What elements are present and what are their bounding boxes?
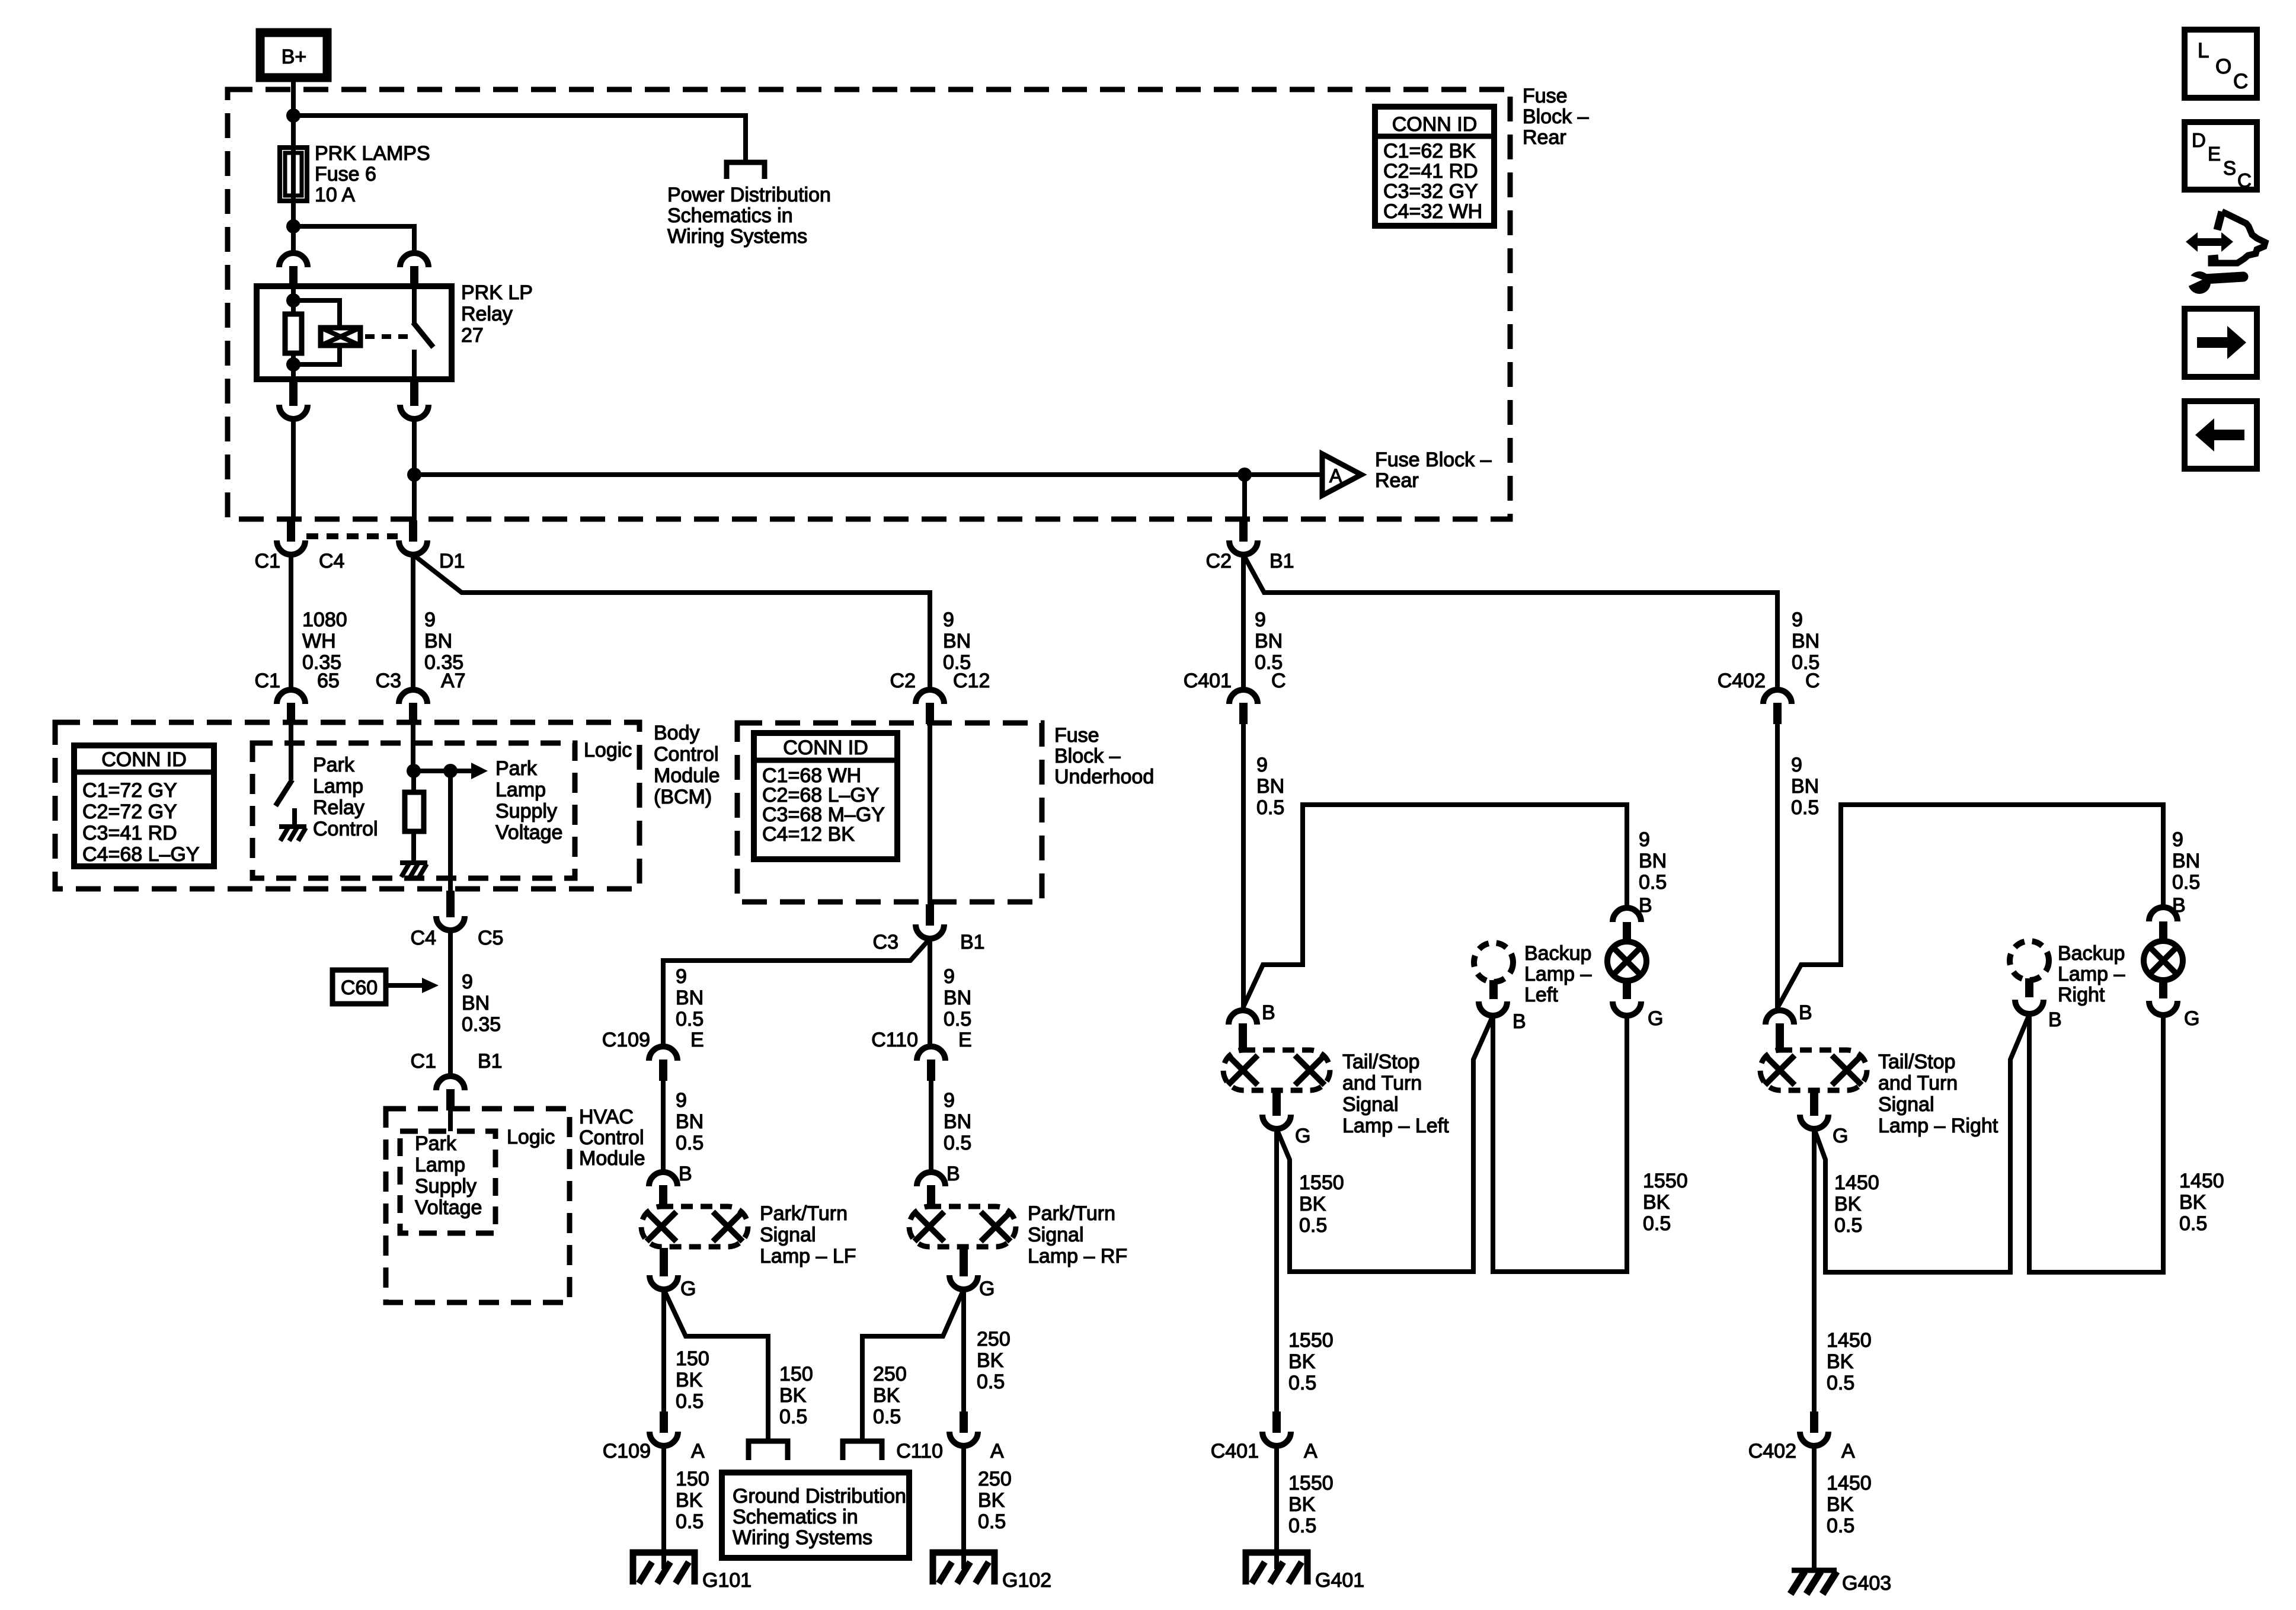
wire C4 to C1 HVAC <box>448 930 453 1076</box>
svg-text:Relay: Relay <box>461 303 513 325</box>
svg-text:Park/Turn: Park/Turn <box>1028 1202 1115 1225</box>
wire C2-B1 down to C401 <box>1241 555 1246 690</box>
label C401 C <box>1184 670 1286 692</box>
connector B park turn LF <box>649 1172 677 1208</box>
svg-text:0.5: 0.5 <box>779 1406 807 1428</box>
label park turn signal lamp LF <box>760 1202 856 1267</box>
label G tail stop left <box>1295 1125 1310 1147</box>
label wire 150 BK 0.5 branch <box>779 1363 813 1428</box>
svg-text:9: 9 <box>1255 609 1266 631</box>
wire loop to tail lamp left B <box>1243 805 1627 1008</box>
relay pin connector bottom-left <box>279 380 308 419</box>
label C109 A <box>603 1440 705 1462</box>
svg-text:0.5: 0.5 <box>1288 1372 1316 1394</box>
svg-text:9: 9 <box>1639 828 1650 851</box>
svg-text:Schematics in: Schematics in <box>733 1506 858 1528</box>
svg-text:CONN ID: CONN ID <box>101 748 187 771</box>
ground G401 <box>1246 1553 1364 1592</box>
switch park lamp relay control <box>276 724 295 825</box>
svg-text:A: A <box>1841 1440 1855 1462</box>
triangle A fuse block rear <box>1322 454 1361 495</box>
svg-text:Tail/Stop: Tail/Stop <box>1878 1051 1955 1073</box>
icon vehicle wrench <box>2186 212 2265 294</box>
label B tail stop right <box>1799 1001 1812 1024</box>
svg-text:250: 250 <box>873 1363 907 1385</box>
svg-text:A: A <box>1304 1440 1318 1462</box>
svg-text:Relay: Relay <box>313 796 364 819</box>
svg-text:BN: BN <box>676 1110 703 1133</box>
svg-text:BN: BN <box>462 992 490 1014</box>
svg-text:Lamp –: Lamp – <box>1524 963 1591 985</box>
connector C401 pin A <box>1262 1411 1291 1446</box>
label relay PRK LP 27 <box>461 281 533 347</box>
connector G park turn LF <box>650 1248 678 1289</box>
label backup lamp right <box>2058 942 2125 1006</box>
svg-text:Lamp: Lamp <box>415 1154 465 1176</box>
wire C110 A to G102 <box>961 1446 966 1569</box>
C60 connector box <box>332 970 386 1004</box>
label G tail left <box>1648 1007 1663 1030</box>
label B tail left <box>1639 894 1652 917</box>
label wire 9 BN 0.5 lamp RF <box>944 1089 971 1154</box>
svg-text:0.5: 0.5 <box>1827 1372 1854 1394</box>
svg-text:0.5: 0.5 <box>676 1390 703 1413</box>
connector G park turn RF <box>949 1248 978 1289</box>
arrow park lamp supply voltage <box>450 763 488 779</box>
connector B tail lamp left <box>1613 908 1641 922</box>
svg-text:C5: C5 <box>478 927 503 949</box>
connector C402 pin C right <box>1763 690 1792 724</box>
svg-text:Logic: Logic <box>507 1126 555 1148</box>
relay K27 box <box>257 286 452 379</box>
ground distribution box <box>722 1473 909 1558</box>
svg-text:BN: BN <box>676 987 703 1009</box>
label wire 9 BN 0.35 <box>424 609 463 674</box>
svg-text:C2: C2 <box>890 670 916 692</box>
connector C109 pin E <box>649 1046 677 1081</box>
svg-text:Lamp: Lamp <box>313 775 363 798</box>
label backup lamp left <box>1524 942 1591 1006</box>
svg-text:0.5: 0.5 <box>1299 1214 1327 1237</box>
svg-text:BK: BK <box>978 1489 1005 1512</box>
wire C109 A to G101 <box>661 1446 666 1569</box>
svg-text:C3=41 RD: C3=41 RD <box>82 822 177 844</box>
svg-text:C3=32 GY: C3=32 GY <box>1383 180 1478 203</box>
svg-text:9: 9 <box>944 1089 955 1112</box>
node junction at resistor <box>407 764 421 778</box>
wire loop to tail lamp right B <box>1777 805 2163 1008</box>
label wire 9 BN 0.5 tail right <box>2172 828 2200 894</box>
svg-text:Right: Right <box>2058 984 2105 1006</box>
svg-text:B: B <box>1512 1010 1526 1033</box>
label C1 C4 <box>255 550 345 572</box>
label C110 E <box>871 1029 971 1051</box>
svg-text:250: 250 <box>978 1468 1012 1490</box>
svg-text:(BCM): (BCM) <box>654 786 712 808</box>
connector D1 at fuse block <box>399 520 427 555</box>
wire B1 branch to C109 <box>663 939 930 1046</box>
label B RF <box>946 1163 960 1185</box>
svg-text:Fuse: Fuse <box>1054 724 1099 747</box>
relay switch <box>413 286 433 379</box>
fork connector to ground distribution left <box>749 1441 788 1460</box>
dashed bridge C4-D1 <box>306 533 398 539</box>
label wire 1450 BK 0.5 bottom right <box>1827 1472 1872 1537</box>
svg-text:9: 9 <box>424 609 436 631</box>
svg-text:Schematics in: Schematics in <box>667 204 793 227</box>
wire backup left to tail lamp G <box>1493 1016 1627 1272</box>
svg-text:B: B <box>2048 1009 2062 1031</box>
svg-text:0.5: 0.5 <box>977 1371 1005 1393</box>
wire G right to C402 A <box>1812 1129 1817 1411</box>
wire G right loop to backup lamp <box>1814 1014 2029 1272</box>
svg-text:C4: C4 <box>319 550 344 572</box>
svg-text:C: C <box>1805 670 1820 692</box>
svg-text:Lamp – Left: Lamp – Left <box>1342 1115 1449 1137</box>
svg-text:0.5: 0.5 <box>1834 1214 1862 1237</box>
wire branch to relay switch pin <box>293 226 414 253</box>
svg-text:1550: 1550 <box>1288 1472 1334 1494</box>
label C109 E <box>602 1029 704 1051</box>
svg-text:9: 9 <box>2172 828 2183 851</box>
fork connector to ground distribution right <box>843 1441 882 1460</box>
svg-text:BK: BK <box>873 1384 900 1407</box>
svg-text:0.5: 0.5 <box>2179 1212 2207 1235</box>
svg-text:150: 150 <box>676 1347 709 1370</box>
fuse block underhood dashed box <box>737 723 1042 902</box>
label park lamp supply voltage BCM <box>495 757 562 844</box>
svg-text:BN: BN <box>944 987 971 1009</box>
svg-text:9: 9 <box>944 965 955 988</box>
label C1 65 <box>255 670 340 692</box>
svg-text:0.5: 0.5 <box>978 1510 1006 1533</box>
conn id table underhood <box>754 733 897 859</box>
wire D1 down 9 BN <box>411 555 415 690</box>
svg-text:1080: 1080 <box>302 609 347 631</box>
svg-text:C4=12 BK: C4=12 BK <box>762 823 855 846</box>
park lamp relay control dashed box <box>252 743 575 878</box>
ground in park lamp relay control <box>279 827 306 841</box>
svg-text:D1: D1 <box>439 550 465 572</box>
relay mechanical link dashed <box>365 334 408 339</box>
icon button back arrow <box>2185 401 2257 469</box>
svg-text:0.5: 0.5 <box>1288 1515 1316 1537</box>
label C3 B1 underhood <box>873 931 985 953</box>
svg-text:Logic: Logic <box>584 739 632 761</box>
label park lamp supply voltage HVAC <box>415 1132 482 1219</box>
icon button LOC <box>2185 30 2257 98</box>
label wire 1550 BK 0.5 left <box>1299 1172 1344 1237</box>
svg-text:Power Distribution: Power Distribution <box>667 184 831 206</box>
svg-text:9: 9 <box>1256 754 1268 776</box>
svg-text:G: G <box>2184 1007 2199 1030</box>
svg-text:C1=62 BK: C1=62 BK <box>1383 140 1476 162</box>
connector G tail lamp left <box>1613 1001 1641 1016</box>
svg-text:C2: C2 <box>1206 550 1232 572</box>
label G tail stop right <box>1833 1125 1848 1147</box>
tail stop turn signal lamp left <box>1223 1050 1330 1090</box>
svg-text:BN: BN <box>943 630 971 652</box>
wire C12 through underhood <box>928 724 932 904</box>
connector B tail stop left <box>1229 1010 1257 1051</box>
conn id table fuse block rear <box>1375 107 1494 226</box>
BCM dashed box <box>55 722 639 889</box>
backup lamp left <box>1474 943 1513 999</box>
connector G tail stop left <box>1262 1092 1291 1129</box>
svg-text:0.5: 0.5 <box>676 1510 703 1533</box>
svg-text:BK: BK <box>1827 1350 1854 1373</box>
label C110 A <box>896 1440 1004 1462</box>
connector B backup left <box>1479 1001 1507 1016</box>
connector C1-C4 at fuse block <box>277 520 305 555</box>
svg-text:PRK LP: PRK LP <box>461 281 533 304</box>
connector C3 pin A7 BCM <box>399 690 427 724</box>
label fuse block rear top <box>1523 85 1589 149</box>
svg-text:BN: BN <box>1791 775 1819 798</box>
tail stop turn signal lamp right <box>1760 1050 1867 1090</box>
connector C3-B1 underhood <box>916 904 944 939</box>
svg-text:CONN ID: CONN ID <box>783 737 868 759</box>
svg-text:G: G <box>1295 1125 1310 1147</box>
svg-text:1550: 1550 <box>1288 1329 1334 1352</box>
wire to power distribution <box>293 116 746 161</box>
svg-text:G101: G101 <box>702 1569 752 1592</box>
connector B backup right <box>2015 1000 2044 1014</box>
svg-text:Signal: Signal <box>1028 1224 1084 1246</box>
svg-text:BK: BK <box>1834 1193 1862 1215</box>
connector C4-C5 <box>436 891 465 930</box>
park turn signal lamp RF <box>909 1206 1016 1247</box>
connector C110 pin E <box>917 1046 945 1081</box>
wire G RF branch to ground distribution <box>862 1289 964 1439</box>
svg-text:1450: 1450 <box>1834 1172 1879 1194</box>
svg-text:Lamp – Right: Lamp – Right <box>1878 1115 1998 1137</box>
svg-text:G: G <box>680 1278 696 1300</box>
svg-text:BN: BN <box>1255 630 1283 652</box>
relay coil <box>293 300 360 364</box>
svg-text:BN: BN <box>2172 850 2200 872</box>
svg-text:0.5: 0.5 <box>1643 1212 1671 1235</box>
label wire 1550 BK 0.5 tail left <box>1643 1170 1688 1235</box>
backup lamp right <box>2010 941 2049 997</box>
wire relay to connector C1 <box>291 419 296 520</box>
svg-text:Control: Control <box>579 1126 644 1149</box>
HVAC control module dashed box <box>386 1109 570 1302</box>
svg-text:B1: B1 <box>1269 550 1294 572</box>
svg-text:E: E <box>2208 143 2221 165</box>
svg-text:150: 150 <box>779 1363 813 1385</box>
svg-text:D: D <box>2192 129 2206 151</box>
wire B1 branch to C402 <box>1243 555 1777 690</box>
svg-text:Block –: Block – <box>1054 745 1121 767</box>
svg-text:B1: B1 <box>960 931 985 953</box>
ground G403 <box>1790 1570 1891 1595</box>
svg-text:Backup: Backup <box>1524 942 1591 965</box>
svg-text:C: C <box>2237 169 2252 191</box>
svg-text:BN: BN <box>1792 630 1819 652</box>
svg-text:A: A <box>691 1440 705 1462</box>
wire C401 to tail stop B <box>1241 724 1246 1008</box>
svg-text:C1: C1 <box>255 670 280 692</box>
wire G LF branch to ground distribution <box>664 1289 768 1439</box>
wire to fuse block rear output A <box>414 472 1322 477</box>
ground under resistor <box>400 863 427 877</box>
label wire 250 BK 0.5 upper <box>977 1328 1011 1393</box>
svg-text:BK: BK <box>1643 1191 1670 1214</box>
tail lamp right <box>2144 921 2183 998</box>
wire C3 into BCM <box>411 724 415 771</box>
svg-text:C2=72 GY: C2=72 GY <box>82 801 177 823</box>
connector C109 pin A <box>650 1411 678 1446</box>
icon button DESC <box>2185 122 2257 191</box>
svg-text:BN: BN <box>424 630 452 652</box>
label wire 1450 BK 0.5 tail right <box>2179 1170 2224 1235</box>
park lamp supply voltage dashed box HVAC <box>400 1131 495 1233</box>
svg-text:Lamp –: Lamp – <box>2058 963 2125 985</box>
label B tail stop left <box>1262 1001 1275 1024</box>
label B LF <box>679 1163 692 1185</box>
connector C1 pin 65 BCM <box>277 690 305 724</box>
svg-text:Wiring Systems: Wiring Systems <box>733 1526 872 1549</box>
wire C1 to BCM 1080 WH <box>289 555 293 690</box>
label C1 B1 HVAC <box>411 1050 503 1073</box>
svg-text:BK: BK <box>676 1369 703 1391</box>
connector G tail lamp right <box>2149 1001 2177 1015</box>
svg-text:Block –: Block – <box>1523 105 1589 128</box>
label C2 B1 <box>1206 550 1294 572</box>
svg-text:G: G <box>1648 1007 1663 1030</box>
relay pin connector top-right <box>400 253 428 287</box>
svg-text:C402: C402 <box>1748 1440 1796 1462</box>
svg-text:WH: WH <box>302 630 336 652</box>
svg-text:Fuse: Fuse <box>1523 85 1568 107</box>
wire C109 to lamp LF <box>661 1081 666 1172</box>
svg-text:C110: C110 <box>871 1029 918 1051</box>
icon button forward arrow <box>2185 309 2257 377</box>
svg-text:BK: BK <box>977 1349 1004 1372</box>
svg-text:C401: C401 <box>1211 1440 1259 1462</box>
ground G101 <box>633 1553 752 1592</box>
svg-text:9: 9 <box>676 1089 687 1112</box>
svg-text:Park: Park <box>313 754 355 776</box>
label body control module <box>654 722 720 808</box>
label C402 C <box>1718 670 1820 692</box>
svg-text:Control: Control <box>654 743 719 766</box>
svg-text:BK: BK <box>779 1384 807 1407</box>
svg-text:A: A <box>1329 465 1342 486</box>
connector B tail lamp right <box>2149 907 2177 921</box>
svg-text:0.5: 0.5 <box>1827 1515 1854 1537</box>
label fuse block rear at A <box>1375 449 1492 492</box>
label wire 9 BN 0.5 at C402 <box>1792 609 1819 674</box>
wire G left loop to backup lamp <box>1277 1016 1493 1272</box>
svg-text:1450: 1450 <box>1827 1329 1872 1352</box>
svg-text:Lamp: Lamp <box>495 779 546 801</box>
svg-text:0.5: 0.5 <box>944 1132 971 1154</box>
svg-text:Lamp – LF: Lamp – LF <box>760 1245 856 1267</box>
label wire 1550 BK 0.5 mid left <box>1288 1329 1334 1394</box>
label wire 150 BK 0.5 upper <box>676 1347 709 1413</box>
wire G left to C401 A <box>1274 1129 1279 1411</box>
svg-text:BN: BN <box>1256 775 1284 798</box>
tail lamp left <box>1607 922 1646 999</box>
svg-text:C402: C402 <box>1718 670 1766 692</box>
svg-text:Signal: Signal <box>1342 1093 1399 1116</box>
svg-text:G: G <box>979 1278 994 1300</box>
svg-text:C109: C109 <box>602 1029 650 1051</box>
label wire 9 BN 0.5 lamp LF <box>676 1089 703 1154</box>
label fuse block underhood <box>1054 724 1154 788</box>
wire C401 A to G401 <box>1274 1446 1279 1569</box>
svg-text:Signal: Signal <box>1878 1093 1934 1116</box>
svg-text:Signal: Signal <box>760 1224 816 1246</box>
wire C402 to tail stop B <box>1775 724 1780 1008</box>
label wire 9 BN 0.5 below C402 <box>1791 754 1819 819</box>
svg-text:B: B <box>1262 1001 1275 1024</box>
svg-text:0.5: 0.5 <box>1639 871 1667 894</box>
relay coil resistor branch <box>285 286 302 379</box>
svg-text:L: L <box>2198 39 2209 62</box>
svg-text:C3: C3 <box>873 931 898 953</box>
svg-text:Supply: Supply <box>495 800 557 822</box>
label B backup left <box>1512 1010 1526 1033</box>
label tail stop lamp left <box>1342 1051 1449 1137</box>
svg-text:B1: B1 <box>478 1050 503 1073</box>
svg-text:CONN ID: CONN ID <box>1392 113 1478 136</box>
svg-text:BK: BK <box>1288 1350 1316 1373</box>
svg-text:O: O <box>2215 55 2231 78</box>
svg-text:S: S <box>2223 157 2236 179</box>
svg-text:BK: BK <box>1299 1193 1326 1215</box>
svg-text:C3: C3 <box>376 670 401 692</box>
wire D1 branch to C12 <box>413 555 930 690</box>
label wire 1450 BK 0.5 mid right <box>1827 1329 1872 1394</box>
svg-text:1450: 1450 <box>1827 1472 1872 1494</box>
relay pin connector top-left <box>279 253 308 287</box>
svg-text:B: B <box>1799 1001 1812 1024</box>
label logic BCM <box>584 739 632 761</box>
ground G102 <box>933 1553 1051 1592</box>
svg-text:1450: 1450 <box>2179 1170 2224 1192</box>
label G RF <box>979 1278 994 1300</box>
node junction relay output <box>407 468 421 482</box>
svg-text:Left: Left <box>1524 984 1558 1006</box>
svg-text:G: G <box>1833 1125 1848 1147</box>
svg-text:10 A: 10 A <box>315 184 355 206</box>
label fuse F6 <box>315 142 430 206</box>
label wire 150 BK 0.5 lower <box>676 1468 709 1533</box>
wire C402 A to G403 <box>1812 1446 1817 1570</box>
svg-text:1550: 1550 <box>1643 1170 1688 1192</box>
connector G tail stop right <box>1800 1092 1828 1129</box>
label C3 A7 <box>376 670 466 692</box>
node junction to C2 <box>1237 468 1252 520</box>
svg-text:BN: BN <box>944 1110 971 1133</box>
svg-text:PRK LAMPS: PRK LAMPS <box>315 142 430 165</box>
svg-text:A7: A7 <box>441 670 466 692</box>
svg-text:C110: C110 <box>896 1440 943 1462</box>
wire backup right to tail lamp G <box>2029 1014 2163 1272</box>
svg-text:C4: C4 <box>411 927 436 949</box>
svg-text:B: B <box>679 1163 692 1185</box>
label wire 9 BN 0.5 at C401 <box>1255 609 1283 674</box>
label D1 <box>439 550 465 572</box>
svg-text:B: B <box>2172 894 2186 917</box>
svg-text:B: B <box>946 1163 960 1185</box>
svg-text:Ground Distribution: Ground Distribution <box>733 1485 906 1507</box>
svg-text:0.5: 0.5 <box>944 1008 971 1030</box>
svg-text:Fuse Block –: Fuse Block – <box>1375 449 1492 471</box>
